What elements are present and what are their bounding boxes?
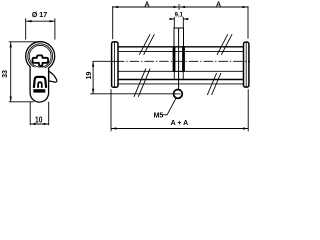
dimension A center tick (178, 4, 180, 10)
dimension 9,1 extension right (182, 17, 184, 28)
dimension Ø17 extension left (25, 18, 27, 39)
dimension 9,1 right arrow segment (183, 18, 188, 20)
cam lower rect right (182, 71, 184, 79)
ABUS wordmark bar (33, 89, 45, 92)
dimension A+A extension right (247, 89, 249, 131)
body top inner line (118, 51, 244, 53)
dimension 33 extension top (9, 41, 40, 43)
cylinder face ring middle circle (28, 44, 53, 69)
dimension 10 extension right (48, 102, 50, 125)
M5 leader line (162, 98, 176, 115)
left collar inner line (113, 42, 115, 87)
dimension 10 line (30, 123, 48, 125)
svg-text:M5: M5 (154, 112, 164, 119)
cam center line (178, 28, 180, 98)
body top edge (118, 46, 244, 48)
dimension A+A line (111, 128, 248, 130)
cylinder face ring inner circle (29, 45, 51, 67)
cylinder body (foot) outline (30, 67, 48, 102)
dimension A extension right (247, 6, 249, 39)
cam lower ledge (173, 70, 185, 72)
break marks right top (217, 34, 232, 55)
svg-text:10: 10 (35, 116, 43, 125)
keyway profile (33, 55, 49, 65)
svg-text:A + A: A + A (171, 120, 189, 127)
dimension A left line (113, 6, 178, 8)
cylinder face outer circle (26, 42, 55, 71)
dimension 10 extension left (29, 102, 31, 125)
ABUS logo arch (34, 77, 46, 88)
break marks left top (139, 34, 154, 55)
svg-text:19: 19 (86, 72, 93, 80)
dimension Ø17 extension right (54, 18, 56, 39)
cam wedge (front view, behind body) (49, 71, 57, 82)
M5 hole horizontal tick (175, 93, 180, 95)
body bottom inner edge (118, 79, 244, 81)
M5 screw hole circle (174, 90, 183, 99)
dimension Ø17 line (26, 20, 54, 22)
left end collar (112, 42, 118, 87)
dimension 33 extension bottom (9, 101, 34, 103)
dimension 9,1 left arrow segment (170, 18, 175, 20)
body mid lower line (118, 70, 244, 72)
break marks right bottom (207, 73, 221, 95)
ABUS logo inner curl (38, 82, 42, 88)
break marks left bottom (134, 69, 150, 97)
dimension A right line (180, 6, 248, 8)
cam thick bar right (182, 47, 185, 72)
dimension A extension left (112, 6, 114, 39)
svg-text:9,1: 9,1 (175, 12, 184, 18)
cam thick bar left (173, 47, 176, 72)
right collar inner line (245, 43, 247, 87)
svg-text:33: 33 (2, 70, 9, 78)
right end collar (244, 42, 249, 87)
dimension 33 line (10, 42, 12, 101)
dimension 9,1 extension left (173, 17, 175, 28)
cam lower rect left (173, 71, 175, 79)
dimension 19 extension bottom (90, 93, 176, 95)
cam upper rectangle (174, 28, 184, 47)
axis center line (93, 60, 115, 62)
dimension 19 line (92, 61, 94, 93)
svg-text:Ø 17: Ø 17 (32, 12, 47, 19)
dimension A+A extension left (110, 89, 112, 131)
body bottom outer line (118, 83, 244, 85)
